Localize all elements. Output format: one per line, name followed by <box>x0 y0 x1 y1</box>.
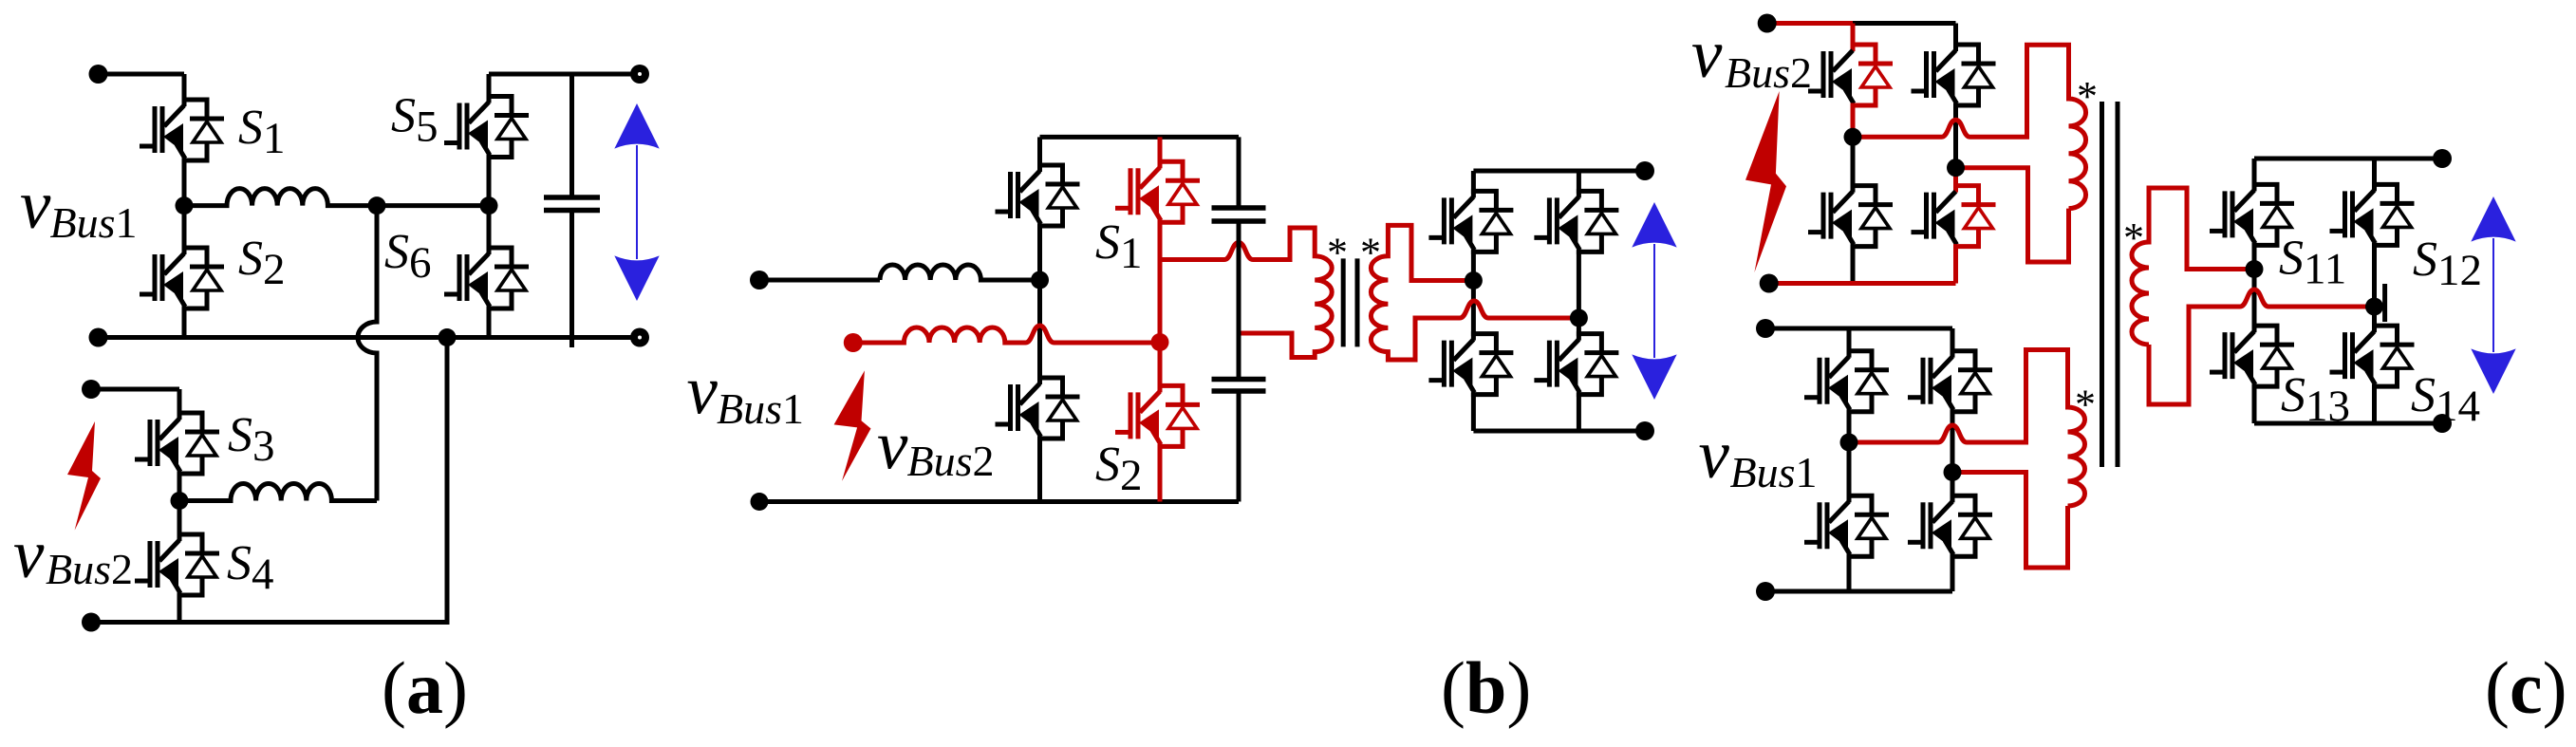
wire vbus1 left leg top <box>1847 328 1852 358</box>
blue arrow output a <box>614 103 659 301</box>
node B junction dot <box>368 196 386 215</box>
wire vbus1 left leg mid <box>1847 410 1852 503</box>
wire TR emitter to node <box>1953 103 1958 168</box>
node black leg junction dot <box>1031 271 1049 289</box>
wire left leg top b2 <box>1471 171 1476 197</box>
terminal dot right bottom <box>1635 421 1654 440</box>
transistor bridge2 TR <box>1534 191 1618 252</box>
terminal open top-right <box>630 65 649 84</box>
diode TL red <box>1851 45 1894 105</box>
wire S13 emitter leg <box>2252 384 2257 423</box>
transformer primary1 bottom lead red <box>1956 168 2069 262</box>
transistor S1 red <box>1115 161 1200 222</box>
terminal dot bridge3 bottom <box>2433 414 2452 433</box>
transistor vbus1 TR <box>1908 351 1992 412</box>
svg-text:(c): (c) <box>2485 646 2567 729</box>
wire black leg middle <box>1037 224 1042 384</box>
wire S14 collector stub <box>2382 284 2387 322</box>
node S11 dot <box>2246 260 2264 278</box>
wire bottom rail b2 <box>1473 429 1645 434</box>
wire vbus1 right leg mid <box>1951 410 1955 503</box>
svg-text:S4: S4 <box>227 536 274 599</box>
node vbus1 right dot <box>1944 463 1962 481</box>
wire S14 emitter leg <box>2372 384 2377 423</box>
transistor S12 <box>2330 184 2415 245</box>
transformer secondary winding red <box>1371 225 1578 360</box>
capacitor C1 bottom lead <box>569 211 574 348</box>
wire red leg middle <box>1158 220 1163 392</box>
terminal dot bridge3 top <box>2433 149 2452 168</box>
svg-text:S11: S11 <box>2279 232 2346 294</box>
terminal dot bottom-left <box>89 328 108 347</box>
transformer primary winding red <box>1160 228 1332 358</box>
wire right leg top black <box>1953 24 1958 52</box>
transistor bridge2 BL <box>1428 334 1513 395</box>
wire S3 collector leg <box>177 389 182 420</box>
transformer secondary top lead red <box>2132 188 2254 345</box>
wire S1 collector leg <box>182 74 187 106</box>
node left leg dot <box>1465 271 1483 289</box>
transistor S11 <box>2210 184 2294 245</box>
wire vbus1 top rail <box>1765 327 1952 331</box>
transistor S4 <box>135 534 219 595</box>
transistor S2 <box>140 248 224 308</box>
svg-text:Bus1: Bus1 <box>717 384 804 433</box>
svg-text:(b): (b) <box>1441 646 1531 729</box>
terminal dot right top <box>1635 161 1654 180</box>
wire black leg bottom <box>1037 437 1042 502</box>
svg-text:S2: S2 <box>1095 438 1143 500</box>
transistor bridge2 BR <box>1534 334 1618 395</box>
wire vbus2 bottom bus <box>91 338 447 623</box>
svg-text:S12: S12 <box>2413 233 2482 295</box>
wire red stub TL emitter <box>1851 103 1856 137</box>
svg-text:S1: S1 <box>238 101 286 163</box>
wire bridge3 bottom rail <box>2254 421 2442 426</box>
wire red input with inductor and hop <box>853 326 1160 343</box>
wire red stub BR collector <box>1953 168 1958 193</box>
wire node B vertical <box>358 206 377 501</box>
terminal open bottom-right <box>630 328 649 347</box>
wire top rail black part <box>1853 21 1956 26</box>
transistor S3 <box>135 413 219 474</box>
svg-text:Bus2: Bus2 <box>1725 48 1812 97</box>
svg-text:(a): (a) <box>382 646 468 729</box>
transistor vbus1 BR <box>1908 495 1992 556</box>
svg-text:v: v <box>20 166 51 243</box>
terminal dot vbus1 top <box>1756 319 1775 338</box>
lightning bolt c <box>1745 91 1786 272</box>
terminal dot vbus1 bottom <box>1756 582 1775 601</box>
svg-text:S5: S5 <box>391 89 439 152</box>
transistor S6 <box>444 248 529 308</box>
svg-text:v: v <box>1691 15 1723 92</box>
wire vbus1 right leg top <box>1951 328 1955 358</box>
wire S12-S14 leg <box>2372 243 2377 332</box>
terminal dot red input <box>844 333 863 352</box>
svg-text:S6: S6 <box>384 225 432 288</box>
transistor top black <box>996 165 1080 226</box>
capacitor Ctop plates <box>1212 208 1266 221</box>
terminal dot vbus2 bottom <box>82 613 101 632</box>
transformer core c <box>2102 102 2119 467</box>
svg-text:*: * <box>2077 73 2098 120</box>
wire right leg top b2 <box>1577 171 1581 197</box>
svg-text:v: v <box>877 407 908 484</box>
wire top rail b <box>1040 135 1240 140</box>
svg-text:S3: S3 <box>228 408 275 471</box>
wire right leg bottom b2 <box>1577 393 1581 431</box>
wire vbus1 bottom rail <box>1765 589 1952 594</box>
wire S4 emitter leg <box>177 593 182 623</box>
node right leg vbus2 dot <box>1947 159 1965 177</box>
capacitor Cbot plates <box>1212 380 1266 392</box>
wire vbus2 top input <box>91 387 179 392</box>
wire vbus1 right leg bottom <box>1951 554 1955 591</box>
terminal dot vbus2 top <box>82 380 101 399</box>
svg-text:*: * <box>2075 382 2096 428</box>
node right leg dot <box>1570 309 1588 327</box>
wire S5 top leg <box>487 74 492 103</box>
blue arrow output c <box>2471 196 2515 394</box>
svg-text:S2: S2 <box>238 232 286 294</box>
wire S3-S4 leg through node <box>177 472 182 541</box>
wire S6 emitter leg <box>487 307 492 338</box>
node vbus1 left dot <box>1840 434 1858 452</box>
wire S5-S6 leg <box>487 156 492 255</box>
terminal dot vbus2 top <box>1758 14 1777 33</box>
transformer secondary bottom lead red <box>2149 289 2375 404</box>
wire right leg mid b2 <box>1577 250 1581 340</box>
wire red stub BR emitter <box>1953 245 1958 284</box>
terminal dot vbus2 bottom <box>1760 274 1779 293</box>
wire capacitor branch bottom <box>1237 391 1241 502</box>
blue arrow output b <box>1632 202 1676 400</box>
node S12 dot <box>2365 298 2383 316</box>
wire left leg bottom b2 <box>1471 393 1476 431</box>
wire S2 emitter leg <box>182 307 187 338</box>
wire S1-S2 leg through node <box>182 159 187 254</box>
wire S11-S13 leg <box>2252 243 2257 332</box>
svg-text:v: v <box>1699 416 1730 493</box>
wire bottom rail vbus2 red <box>1769 281 1956 286</box>
svg-text:Bus2: Bus2 <box>46 545 133 593</box>
wire left leg mid b2 <box>1471 250 1476 340</box>
transistor BL black <box>1808 186 1893 247</box>
transistor S2 red <box>1115 385 1200 446</box>
wire S11 collector leg <box>2252 159 2257 191</box>
svg-text:Bus1: Bus1 <box>50 198 138 247</box>
transistor bridge2 TL <box>1428 191 1513 252</box>
wire bridge3 top rail <box>2254 157 2442 161</box>
transistor S1 <box>140 100 224 160</box>
svg-text:Bus2: Bus2 <box>907 437 995 485</box>
wire capacitor mid <box>1237 221 1241 380</box>
transformer primary2 bottom lead red <box>1952 473 2068 569</box>
wire vbus1 left leg bottom <box>1847 554 1852 591</box>
svg-text:S1: S1 <box>1095 215 1143 278</box>
transistor vbus1 BL <box>1804 495 1889 556</box>
inductor L2 <box>179 484 377 501</box>
transistor vbus1 TL <box>1804 351 1889 412</box>
transistor S14 <box>2330 326 2415 386</box>
transistor TL igbt black <box>1808 50 1854 103</box>
wire vbus1 input <box>759 278 880 283</box>
svg-text:v: v <box>687 352 719 429</box>
terminal dot vbus1 <box>750 271 769 289</box>
terminal dot bottom b <box>751 493 769 511</box>
junction dot bottom bus <box>439 328 457 346</box>
wire red stub TL collector <box>1851 24 1856 52</box>
svg-text:Bus1: Bus1 <box>1730 448 1818 496</box>
wire top output <box>489 72 632 77</box>
node C junction dot <box>480 196 498 215</box>
capacitor C1 plates <box>544 197 600 211</box>
wire black leg top <box>1037 137 1042 172</box>
wire red leg bottom <box>1158 444 1163 501</box>
inductor L1b <box>880 265 1040 280</box>
wire right bridge top rail <box>1473 169 1645 174</box>
inductor L1 <box>184 189 489 206</box>
wire bottom rail b <box>759 499 1239 504</box>
svg-text:*: * <box>1327 230 1348 276</box>
transistor BR igbt black <box>1912 192 1957 245</box>
wire black BL emitter <box>1851 245 1856 284</box>
diode BR red <box>1953 186 1996 247</box>
lightning bolt a <box>67 421 101 531</box>
wire S12 collector leg <box>2372 159 2377 191</box>
node D junction dot <box>171 492 189 510</box>
transformer core <box>1343 258 1357 346</box>
node red junction dot <box>1151 333 1169 351</box>
wire capacitor branch top <box>1237 137 1241 208</box>
wire red leg top <box>1158 137 1163 168</box>
transformer primary1 top lead red <box>1853 45 2086 208</box>
wire black left leg lower <box>1851 137 1856 192</box>
capacitor C1 top lead <box>569 74 574 197</box>
node A junction dot <box>176 196 194 215</box>
transformer primary2 top lead red <box>1849 350 2085 507</box>
wire top rail red part <box>1767 21 1853 26</box>
transistor bottom black <box>996 378 1080 439</box>
wire top-left input <box>99 72 185 77</box>
transistor TR black <box>1912 45 1996 105</box>
wire bottom bus with hop <box>99 335 633 340</box>
terminal dot top-left <box>89 65 108 84</box>
transistor S5 <box>444 97 529 158</box>
node left leg vbus2 dot <box>1844 128 1862 146</box>
svg-text:v: v <box>13 515 45 592</box>
transistor S13 <box>2210 326 2294 386</box>
lightning bolt b <box>834 370 871 481</box>
